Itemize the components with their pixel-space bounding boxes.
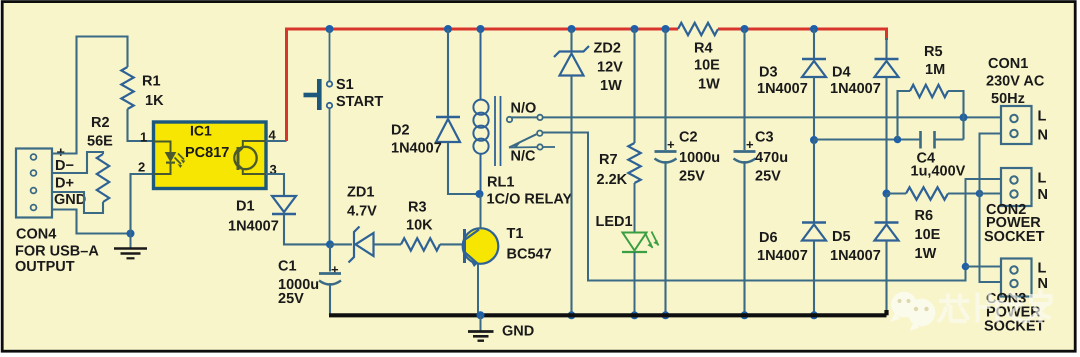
svg-text:10E: 10E (915, 227, 941, 243)
svg-text:CON1: CON1 (988, 56, 1028, 72)
label LED1 (596, 214, 633, 230)
label 56E (87, 134, 113, 150)
wire S1 top (329, 29, 331, 81)
wire CON4 GND to ground node (52, 210, 131, 234)
svg-text:R3: R3 (408, 200, 427, 216)
wire relay pole to sockets L (543, 133, 1002, 281)
label R1 (142, 74, 161, 90)
label D4 1N4007 (830, 81, 881, 97)
IC1 phototransistor (234, 141, 266, 174)
label S1 (336, 77, 354, 93)
svg-text:CON4: CON4 (16, 227, 56, 243)
label R5 (924, 44, 943, 60)
junction red rail / D3 (810, 25, 818, 33)
op-amp U1 optocoupler IC1 PC817 body (154, 122, 267, 189)
label N/O (511, 101, 537, 117)
label D6 1N4007 (757, 248, 808, 264)
label 4.7V (347, 204, 377, 220)
svg-text:PC817: PC817 (185, 145, 229, 161)
label 12V (597, 60, 623, 76)
label 50Hz (991, 91, 1025, 107)
label IC1 (190, 123, 212, 139)
svg-text:C3: C3 (755, 130, 774, 146)
label D3 1N4007 (757, 81, 808, 97)
junction pole / CON3 L (962, 263, 970, 271)
junction red rail / R7 (631, 25, 639, 33)
svg-text:25V: 25V (679, 169, 705, 185)
IC1 pin number 2 (138, 160, 145, 175)
wire CON3 L stub (966, 266, 1002, 268)
svg-text:N/C: N/C (511, 149, 537, 165)
svg-text:D1: D1 (236, 199, 255, 215)
svg-text:SOCKET: SOCKET (984, 319, 1045, 335)
label 1M (925, 62, 945, 78)
svg-text:10E: 10E (694, 58, 720, 74)
label 2.2K (597, 172, 628, 188)
label R6 (915, 208, 934, 224)
junction red rail / relay (477, 25, 485, 33)
wire R7 to LED1 (634, 183, 636, 232)
junction T1 emitter / ground bus (477, 311, 485, 319)
CON4 pin label D- (55, 158, 74, 174)
label D3 (759, 65, 778, 81)
LED LED1 (622, 232, 659, 253)
wire D2 cathode (447, 29, 449, 117)
zener ZD1 4.7V (349, 227, 374, 263)
label CON3 SOCKET (984, 319, 1045, 335)
wire D5 anode to bus corner (885, 241, 887, 314)
junction coil / D2 / T1 collector (476, 190, 484, 198)
label CON2 POWER (986, 215, 1041, 231)
label ZD2 1W (600, 78, 622, 94)
svg-text:1W: 1W (698, 77, 720, 93)
svg-text:470u: 470u (755, 150, 788, 166)
diode D1 1N4007 (272, 196, 296, 214)
svg-text:D−: D− (55, 158, 74, 174)
wire node to C1 (329, 244, 331, 271)
transistor Q1 T1 BC547 (463, 228, 499, 267)
diode D3 1N4007 (802, 59, 826, 77)
svg-text:1W: 1W (600, 78, 622, 94)
junction red rail / C3 (741, 25, 749, 33)
wire R3 to T1 base (440, 243, 465, 245)
label CON4 (16, 227, 56, 243)
wire CON4 D+ to R2 bottom (52, 192, 103, 213)
label D6 (759, 230, 778, 246)
junction bridge node B / R6 (883, 190, 891, 198)
label D1 1N4007 (228, 219, 279, 235)
svg-text:N: N (1038, 128, 1048, 144)
svg-text:LED1: LED1 (596, 214, 633, 230)
label FOR USB-A (15, 244, 99, 260)
label N/C (511, 149, 537, 165)
svg-text:1N4007: 1N4007 (830, 248, 881, 264)
label CON1 (988, 56, 1028, 72)
wire node A to C4 (814, 138, 920, 140)
label C4 (917, 151, 936, 167)
CON4 pin label D+ (55, 176, 74, 192)
svg-text:1N4007: 1N4007 (757, 81, 808, 97)
svg-text:1: 1 (140, 130, 147, 145)
junction C3 / ground bus (741, 311, 749, 319)
relay N/C fixed contact (509, 144, 555, 149)
svg-text:SOCKET: SOCKET (984, 229, 1045, 245)
svg-text:D+: D+ (55, 176, 74, 192)
watermark logo (890, 291, 1051, 331)
label CON3 L (1038, 261, 1047, 277)
label C1 25V (278, 291, 304, 307)
svg-text:S1: S1 (336, 77, 354, 93)
svg-text:1000u: 1000u (679, 150, 720, 166)
wire CON4 + to R1 top loop (52, 37, 128, 154)
svg-text:RL1: RL1 (487, 175, 514, 191)
connector CON2 (1001, 168, 1032, 206)
label START (336, 94, 383, 110)
IC1 internal LED (154, 142, 186, 175)
label D2 (391, 123, 410, 139)
wire CON2 N stub (980, 193, 1002, 195)
wire ZD1 to R3 (374, 243, 402, 245)
svg-text:R2: R2 (91, 115, 110, 131)
junction D6 / ground bus (810, 311, 818, 319)
IC1 pin number 4 (269, 128, 277, 143)
svg-text:1M: 1M (925, 62, 945, 78)
svg-text:D2: D2 (391, 123, 410, 139)
wire CON1 N to sockets N (980, 134, 1002, 283)
svg-text:N: N (1038, 187, 1048, 203)
relay armature (509, 131, 543, 149)
svg-text:+: + (746, 137, 754, 152)
label C2 1000u (679, 150, 720, 166)
capacitor C3 470u (734, 152, 756, 163)
label R3 (408, 200, 427, 216)
label D4 (832, 65, 851, 81)
svg-text:1u,400V: 1u,400V (911, 164, 966, 180)
wire R5 bracket (898, 91, 964, 140)
svg-text:230V AC: 230V AC (986, 74, 1045, 90)
relay N/O fixed contact (507, 115, 543, 123)
label D5 (832, 229, 851, 245)
junction C2 / ground bus (662, 311, 670, 319)
connector CON3 (1001, 259, 1032, 297)
svg-text:L: L (1038, 109, 1047, 125)
svg-text:2.2K: 2.2K (597, 172, 628, 188)
label CON1 N (1038, 128, 1048, 144)
svg-text:1W: 1W (915, 246, 937, 262)
wire C2 to bus (664, 161, 666, 315)
svg-text:ZD2: ZD2 (594, 41, 621, 57)
resistor R3 (401, 238, 440, 250)
label C1 (278, 259, 297, 275)
svg-text:1C/O RELAY: 1C/O RELAY (487, 192, 573, 208)
wire node A to D6 (813, 140, 815, 223)
label R6 10E (915, 227, 941, 243)
label 1C/O RELAY (487, 192, 573, 208)
label CON2 SOCKET (984, 229, 1045, 245)
wire +12V rail (red) (287, 29, 887, 141)
svg-text:START: START (336, 94, 383, 110)
svg-text:2: 2 (138, 160, 145, 175)
junction C4 left bracket (894, 136, 902, 144)
junction ground node (127, 230, 135, 238)
label OUTPUT (15, 259, 75, 275)
resistor R5 (910, 85, 948, 97)
svg-text:1N4007: 1N4007 (391, 141, 442, 157)
label C2 plus (667, 137, 675, 152)
svg-text:L: L (1038, 261, 1047, 277)
label CON2 N (1038, 187, 1048, 203)
junction node ZD1/C1/S1 (326, 240, 334, 248)
label R4 1W (698, 77, 720, 93)
svg-text:OUTPUT: OUTPUT (15, 259, 75, 275)
label 230V AC (986, 74, 1045, 90)
svg-text:N/O: N/O (511, 101, 537, 117)
wire D1 to node row (284, 214, 330, 244)
svg-text:25V: 25V (278, 291, 304, 307)
diode D6 1N4007 (802, 223, 826, 241)
svg-text:BC547: BC547 (507, 247, 552, 263)
wire IC1 pin4 stub (266, 140, 287, 142)
wire C3 to bus (743, 161, 745, 315)
label CON3 POWER (986, 305, 1041, 321)
ground (left) (114, 234, 147, 259)
svg-text:10K: 10K (406, 218, 433, 234)
svg-text:1N4007: 1N4007 (228, 219, 279, 235)
svg-text:R6: R6 (915, 208, 934, 224)
label ZD1 (347, 185, 374, 201)
resistor R7 (628, 143, 640, 183)
wire R6 left stub (887, 192, 907, 194)
label CON1 L (1038, 109, 1047, 125)
junction red rail / ZD2 (568, 25, 576, 33)
wire node B to D5 (885, 194, 887, 223)
ground (center) (468, 315, 494, 340)
wire C2 top (664, 29, 666, 150)
label RL1 (487, 175, 514, 191)
resistor R6 (906, 187, 948, 199)
label C4 1u400V (911, 164, 966, 180)
label R7 (599, 152, 618, 168)
label CON2 (986, 202, 1026, 218)
wire D3 anode to node A (813, 77, 815, 140)
connector CON4 (USB-A output) (16, 149, 52, 218)
svg-text:GND: GND (502, 324, 534, 340)
diode D2 1N4007 (436, 117, 460, 142)
IC1 pin number 1 (140, 130, 147, 145)
svg-text:C1: C1 (278, 259, 297, 275)
svg-text:56E: 56E (87, 134, 113, 150)
svg-text:L: L (1038, 171, 1047, 187)
wire T1 emitter (477, 265, 479, 316)
label 1K (145, 93, 164, 109)
label BC547 (507, 247, 552, 263)
svg-text:1K: 1K (145, 93, 164, 109)
label C3 25V (755, 169, 781, 185)
junction red rail / C2 (662, 25, 670, 33)
capacitor C1 1000u (319, 274, 341, 285)
resistor R1 (121, 67, 133, 109)
svg-text:1N4007: 1N4007 (757, 248, 808, 264)
wire S1 bottom to node (329, 108, 331, 244)
wire D2 anode to coil node (448, 142, 480, 194)
svg-text:IC1: IC1 (190, 123, 212, 139)
CON4 pin label GND (54, 192, 86, 208)
zener ZD2 12V (554, 29, 589, 315)
label C2 25V (679, 169, 705, 185)
label CON2 L (1038, 171, 1047, 187)
label R4 10E (694, 58, 720, 74)
svg-text:GND: GND (54, 192, 86, 208)
svg-text:50Hz: 50Hz (991, 91, 1025, 107)
wire D4 cathode (885, 38, 887, 59)
svg-text:4.7V: 4.7V (347, 204, 377, 220)
label R4 (694, 41, 713, 57)
wire ground bus (329, 310, 887, 315)
junction LED1 / ground bus (631, 311, 639, 319)
label CON3 N (1038, 276, 1048, 292)
svg-text:1N4007: 1N4007 (830, 81, 881, 97)
svg-text:25V: 25V (755, 169, 781, 185)
wire R6 right stub (948, 192, 980, 194)
svg-text:D5: D5 (832, 229, 851, 245)
svg-text:R4: R4 (694, 41, 713, 57)
label ZD2 (594, 41, 621, 57)
svg-text:D3: D3 (759, 65, 778, 81)
wire node to ZD1 (330, 243, 352, 245)
label CON3 (986, 291, 1026, 307)
svg-text:T1: T1 (507, 226, 524, 242)
junction R6 / N line (976, 190, 984, 198)
label C3 470u (755, 150, 788, 166)
CON4 pin label + (57, 145, 65, 161)
wire T1 collector (480, 194, 482, 229)
wire D6 anode to bus (813, 241, 815, 316)
capacitor C4 1u 400V (921, 131, 964, 149)
junction ZD2 / ground bus (568, 311, 576, 319)
svg-text:D4: D4 (832, 65, 851, 81)
svg-text:R5: R5 (924, 44, 943, 60)
label C3 plus (746, 137, 754, 152)
svg-text:+: + (667, 137, 675, 152)
relay RL1 coil (473, 100, 488, 154)
capacitor C2 1000u (655, 152, 677, 163)
wire L rail from N/O contact to CON1 (511, 116, 1001, 118)
switch S1 (304, 79, 333, 110)
wire R7 top (633, 29, 635, 143)
svg-text:FOR USB–A: FOR USB–A (15, 244, 99, 260)
junction L rail / R5-C4 (960, 113, 968, 121)
wire C1 to bus (329, 283, 331, 315)
wire D4 anode to node B (885, 77, 887, 194)
resistor R4 (678, 23, 718, 35)
wire CON4 D- to R2 top (52, 152, 103, 173)
label PC817 (185, 145, 229, 161)
wire D3 cathode (813, 29, 815, 59)
label D2 1N4007 (391, 141, 442, 157)
label D1 (236, 199, 255, 215)
wire IC1 pin2 down to ground node (131, 174, 154, 234)
label R2 (91, 115, 110, 131)
svg-text:R7: R7 (599, 152, 618, 168)
junction red rail / S1 (326, 25, 334, 33)
label C2 (679, 130, 698, 146)
wire IC1 pin3 to D1 (266, 174, 284, 196)
label C1 1000u (278, 277, 319, 293)
svg-text:12V: 12V (597, 60, 623, 76)
diode D4 1N4007 (875, 59, 899, 77)
junction bridge node A (810, 136, 818, 144)
svg-text:C2: C2 (679, 130, 698, 146)
resistor R2 (97, 154, 109, 202)
wire C3 top (743, 29, 745, 150)
wire LED1 to bus (634, 252, 636, 315)
label R6 1W (915, 246, 937, 262)
label 10K (406, 218, 433, 234)
label C3 (755, 130, 774, 146)
svg-text:ZD1: ZD1 (347, 185, 374, 201)
wire relay coil top (480, 29, 482, 100)
relay core (495, 96, 501, 166)
label D5 1N4007 (830, 248, 881, 264)
junction red rail / D2 (444, 25, 452, 33)
svg-text:R1: R1 (142, 74, 161, 90)
wire relay coil bottom (480, 154, 482, 194)
label C1 plus (331, 262, 339, 277)
IC1 pin number 3 (270, 162, 277, 177)
connector CON1 (1001, 106, 1032, 144)
label GND (502, 324, 534, 340)
diode D5 1N4007 (875, 223, 899, 241)
label T1 (507, 226, 524, 242)
svg-text:D6: D6 (759, 230, 778, 246)
wire R1 to IC1 pin1 (128, 109, 154, 141)
